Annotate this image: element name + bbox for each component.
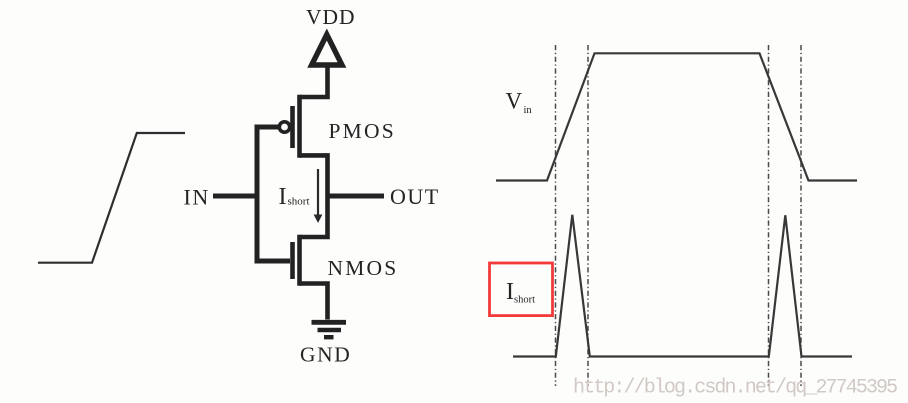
svg-text:in: in — [524, 105, 533, 116]
svg-text:IN: IN — [184, 185, 210, 210]
wire OUT — [328, 194, 385, 199]
wire IN to gate — [213, 194, 259, 199]
transistor PMOS bubble — [279, 122, 289, 132]
svg-text:NMOS: NMOS — [328, 256, 399, 280]
dash-dot guide line 3 — [768, 45, 770, 386]
transistor PMOS channel bar — [297, 95, 302, 158]
input ramp waveform (far left) — [38, 133, 185, 263]
wire PMOS drain to NMOS drain (output node vertical) — [300, 155, 328, 237]
highlight red box — [490, 263, 553, 316]
svg-text:V: V — [506, 89, 523, 114]
svg-text:short: short — [514, 295, 535, 306]
svg-text:VDD: VDD — [306, 5, 356, 29]
current arrow I_short — [317, 169, 319, 217]
dash-dot guide line 2 — [587, 45, 589, 386]
wire PMOS source to VDD — [300, 64, 328, 97]
svg-text:PMOS: PMOS — [329, 119, 396, 143]
svg-text:OUT: OUT — [390, 184, 440, 209]
power VDD triangle symbol — [312, 35, 342, 66]
transistor NMOS gate bar — [290, 242, 295, 279]
waveform Vin trapezoid — [496, 53, 857, 180]
wire NMOS source to ground — [300, 284, 328, 320]
dash-dot guide line 1 — [555, 45, 557, 386]
transistor PMOS gate bar — [290, 106, 295, 148]
dash-dot guide line 4 — [800, 45, 802, 386]
svg-text:I: I — [279, 184, 287, 210]
wire PMOS gate stub — [255, 125, 279, 130]
svg-text:http://blog.csdn.net/qq_277453: http://blog.csdn.net/qq_27745395 — [573, 377, 897, 400]
transistor NMOS channel bar — [297, 235, 302, 286]
svg-text:short: short — [288, 196, 310, 208]
wire gate vertical — [255, 125, 260, 264]
svg-text:I: I — [506, 279, 514, 305]
waveform Ishort spikes — [513, 215, 852, 357]
wire NMOS gate stub — [255, 259, 291, 264]
ground symbol — [312, 320, 347, 325]
svg-text:GND: GND — [300, 343, 351, 367]
